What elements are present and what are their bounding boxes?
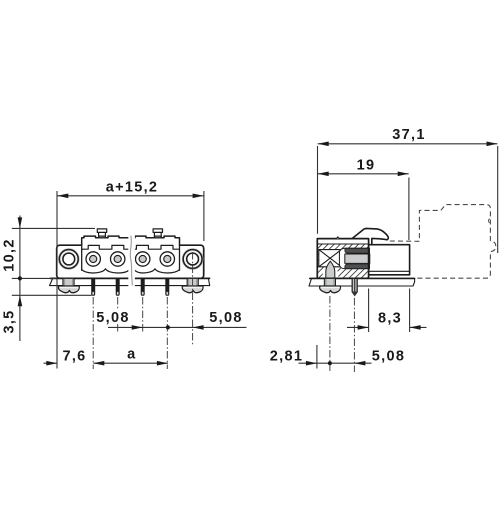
svg-text:19: 19 bbox=[357, 157, 376, 173]
arrow 10,2 top (down) bbox=[18, 217, 23, 228]
arrow 7,6 (tip at body edge) bbox=[46, 361, 57, 366]
extension 19 right bbox=[408, 178, 410, 241]
extension line pin tip (3,5) bbox=[12, 294, 92, 296]
extension 8,3 left (body right edge) bbox=[368, 289, 370, 333]
arrowheads and dots bbox=[18, 142, 498, 366]
mounting screw (side view, stud through PCB) bbox=[324, 279, 335, 286]
extension 37,1 left bbox=[317, 146, 319, 234]
dimension line 37,1 bbox=[318, 143, 498, 145]
extension line body bottom (10,2) bbox=[12, 277, 56, 279]
contact pin (gray, section) bbox=[345, 254, 370, 263]
body top wall line bbox=[317, 243, 368, 245]
extension line left body edge (front) bbox=[56, 191, 58, 369]
mounting screw head (side view) bbox=[320, 286, 341, 293]
flange screw left (stud) bbox=[63, 279, 74, 286]
svg-text:37,1: 37,1 bbox=[392, 127, 425, 143]
flange screw left (head) bbox=[58, 286, 79, 293]
contact 4 bbox=[160, 252, 174, 266]
contact 1 bbox=[86, 252, 100, 266]
dimension texts bbox=[1, 127, 425, 365]
centerline right screw (front) bbox=[192, 252, 194, 345]
centerline pin (side) bbox=[353, 298, 355, 372]
latch tab 1 bbox=[97, 229, 106, 238]
shroud inner keyed profile bbox=[82, 245, 180, 249]
break line bbox=[130, 236, 132, 285]
dot chain 2,81 (screw axis) bbox=[328, 361, 332, 365]
arrows 37,1 bbox=[318, 142, 329, 147]
contact spring lower bar (section) bbox=[345, 264, 369, 269]
white pocket chevron around screw bbox=[322, 258, 338, 278]
text halo for first 5,08 label bbox=[96, 309, 133, 324]
X cavity (section) bbox=[319, 250, 342, 267]
PCB strip (front view) bbox=[50, 278, 210, 285]
contact spring upper bar (section) bbox=[345, 248, 369, 253]
arrow 5,08 right (tip at screw axis) bbox=[193, 325, 204, 330]
dimension line 8,3 tails bbox=[347, 326, 369, 328]
centerline pin 1 bbox=[92, 297, 94, 369]
dot chain 10,2/3,5 bbox=[18, 276, 22, 280]
small bump on body top bbox=[337, 237, 340, 239]
solder pin 4 (front) bbox=[165, 279, 169, 296]
solder pin 3 (front) bbox=[141, 279, 145, 296]
arrows a+15,2 bbox=[57, 194, 68, 199]
extension 2,81 left (side body left edge) bbox=[316, 345, 318, 369]
centerline pin 4 bbox=[166, 297, 168, 369]
PCB strip (side view) bbox=[309, 278, 415, 286]
dimension line 19 bbox=[318, 173, 409, 175]
svg-text:8,3: 8,3 bbox=[378, 311, 402, 327]
extension 37,1 right bbox=[497, 146, 499, 253]
plug latch notch mark bbox=[488, 219, 491, 223]
section block outline bbox=[317, 239, 368, 279]
dimension line 5,08 row (front) bbox=[108, 326, 247, 328]
arrows 8,3 (outside) bbox=[358, 325, 369, 330]
arrows a bbox=[93, 361, 104, 366]
white pocket around X cavity bbox=[319, 250, 342, 267]
scalloped bottom edge of shroud face bbox=[82, 269, 130, 273]
extension line 10,2 top bbox=[12, 227, 95, 229]
contact 2 bbox=[111, 252, 125, 266]
dimension line 2,81 / 5,08 row (side) bbox=[299, 362, 317, 364]
flange screw right (head) bbox=[182, 286, 203, 293]
dimension line 7,6 tail bbox=[44, 362, 58, 364]
latch tab 2 bbox=[153, 229, 162, 238]
contact slot (white) bbox=[339, 248, 369, 269]
pin shroud (side view, open box) bbox=[369, 245, 410, 275]
break line white gap bbox=[128, 236, 135, 287]
mating plug phantom outline (dashed) bbox=[390, 205, 496, 279]
solder pin 1 (front) bbox=[91, 279, 95, 296]
svg-text:5,08: 5,08 bbox=[209, 310, 242, 326]
latch lever (side view) bbox=[352, 228, 388, 244]
shroud side edges bbox=[81, 245, 83, 270]
centerlines (dash-dot) bbox=[93, 252, 354, 372]
shroud bottom inner wall bbox=[369, 270, 410, 272]
shroud top profile with ribs bbox=[82, 236, 180, 245]
connector body (front view lower block) bbox=[57, 245, 204, 278]
arrow 3,5 bottom (up) bbox=[18, 295, 23, 306]
centerline pin 2 bbox=[117, 297, 119, 333]
arrow 5,08 side (outside right) bbox=[354, 361, 365, 366]
dimension a+15,2 line bbox=[57, 195, 203, 197]
extension line right body edge (front) bbox=[203, 191, 205, 241]
svg-text:10,2: 10,2 bbox=[1, 238, 17, 271]
solder pin (side view) bbox=[352, 279, 358, 297]
svg-text:a: a bbox=[127, 347, 136, 363]
svg-text:5,08: 5,08 bbox=[372, 349, 405, 365]
solder pin 2 (front) bbox=[116, 279, 120, 296]
svg-text:a+15,2: a+15,2 bbox=[106, 179, 159, 195]
flange hole left bbox=[59, 249, 80, 270]
shroud face (front view upper block) bbox=[82, 237, 180, 247]
flange screw right (stud) bbox=[187, 279, 198, 286]
dimension line a bbox=[93, 362, 168, 364]
svg-text:3,5: 3,5 bbox=[1, 309, 17, 333]
contact 3 bbox=[136, 252, 150, 266]
svg-text:5,08: 5,08 bbox=[96, 310, 129, 326]
extension 8,3 right (shroud front) bbox=[409, 289, 411, 333]
arrow 5,08 left (tip at pin3) bbox=[132, 325, 143, 330]
screw shaft+tip inside body (side view) bbox=[326, 261, 335, 286]
svg-text:2,81: 2,81 bbox=[270, 349, 303, 365]
vertical dimension line 10,2 / 3,5 bbox=[19, 216, 21, 342]
centerline screw (side) bbox=[329, 296, 331, 372]
section block hatched body bbox=[317, 244, 368, 278]
arrows 19 bbox=[318, 172, 329, 177]
dot chain 5,08 (pin4) bbox=[166, 325, 170, 329]
centerline pin 3 bbox=[142, 297, 144, 333]
svg-text:7,6: 7,6 bbox=[62, 349, 86, 365]
flange hole right bbox=[182, 249, 203, 270]
arrow 2,81 (outside left) bbox=[306, 361, 317, 366]
